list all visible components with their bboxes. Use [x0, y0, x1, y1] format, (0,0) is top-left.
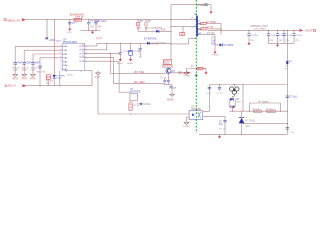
wire cap2 top — [95, 20, 97, 23]
junction RSN x59.8 — [59, 85, 60, 86]
pin stub U2 bottom 2 — [80, 71, 82, 73]
wire chain x70 — [69, 20, 71, 28]
wire fan feed vert — [286, 30, 288, 60]
junction ref x285 — [287, 123, 288, 124]
wire RC1 up — [106, 43, 108, 50]
wire C9 stub — [219, 85, 221, 88]
junction x285 fb — [287, 111, 288, 112]
wire U3 pin right — [137, 103, 141, 105]
port glyph VBUS_IN — [4, 19, 6, 21]
wire C7 bot — [164, 82, 166, 85]
wire U3 in drop — [129, 92, 131, 93]
svg-text:C? 1n: C? 1n — [288, 132, 295, 134]
wire x243 vert — [242, 85, 244, 112]
svg-text:ww: ww — [285, 68, 289, 70]
capacitor Cout3 — [276, 34, 279, 36]
junction x171 rail — [170, 19, 171, 20]
junction RSN x40 — [39, 85, 40, 86]
resistor R3 — [137, 22, 140, 26]
svg-text:C? 0u1: C? 0u1 — [290, 97, 298, 99]
capacitor C_vcc body — [180, 32, 185, 35]
ground pgnd row — [184, 72, 189, 74]
wire ref row — [242, 123, 288, 125]
capacitor C8 — [208, 87, 212, 89]
capacitor C11 bottom right — [286, 128, 290, 130]
port arrow RS_N — [22, 84, 26, 87]
junction vout fan col — [287, 30, 288, 31]
wire boost top — [171, 4, 211, 6]
wire row1 to node — [206, 22, 221, 24]
svg-text:SW?: SW? — [26, 62, 32, 64]
svg-text:RTN: RTN — [67, 32, 72, 34]
switch SW2 body — [23, 62, 26, 64]
wire line B — [114, 83, 164, 85]
junction bypass r — [280, 111, 281, 112]
wire SW3 bot — [32, 64, 34, 74]
pin stub U2 left 6 — [61, 64, 62, 66]
junction x243 fb — [242, 110, 243, 111]
junction x171 vcc — [170, 43, 171, 44]
ground SW3 — [30, 74, 35, 76]
wire pgnd drop — [185, 69, 187, 73]
ground opto — [184, 122, 189, 124]
wire cap2 bot — [95, 24, 97, 30]
junction rail x47 — [46, 19, 47, 20]
wire D5 out — [150, 42, 171, 44]
junction rail fb right — [88, 19, 89, 20]
svg-text:4M7: 4M7 — [145, 27, 150, 30]
svg-text:AGND: AGND — [127, 62, 133, 65]
wire RC2 h — [86, 53, 121, 55]
wire Q1 emitter — [167, 73, 169, 80]
wire outcap5 bot — [293, 35, 295, 43]
wire MCU left L3 vert — [32, 54, 34, 62]
svg-text:RTN: RTN — [13, 77, 18, 80]
pin stub U2 left 7 — [61, 68, 62, 70]
pin stub U2 left 4 — [61, 57, 62, 59]
svg-text:LTST: LTST — [56, 78, 62, 80]
assembly dashed line (green) — [195, 0, 197, 133]
port glyph RS_N — [5, 84, 8, 86]
wire opto rt pin — [203, 110, 210, 112]
wire bypass left — [248, 103, 250, 111]
svg-text:K01P: K01P — [22, 70, 28, 72]
svg-text:COILCRAFT: COILCRAFT — [254, 27, 267, 30]
capacitor C6 — [139, 48, 142, 50]
port glyph VOUT — [313, 29, 315, 31]
wire SW2 bot — [23, 64, 25, 74]
svg-text:1V5: 1V5 — [161, 29, 166, 32]
wire opto rb pin — [203, 115, 225, 117]
resistor R5 row1 — [201, 22, 206, 24]
junction fan c9 — [219, 84, 220, 85]
wire outcap4 bot — [283, 35, 285, 43]
wire outcap2 bot — [267, 35, 269, 43]
power arrow C5 gnd — [119, 58, 122, 62]
fuse F1 body — [286, 61, 288, 64]
wire C6 bot — [139, 50, 141, 57]
wire stack x215 — [214, 35, 216, 51]
junction RTN b — [95, 30, 96, 31]
wire divider bottom — [138, 30, 171, 32]
svg-text:AGND: AGND — [117, 62, 123, 65]
wire U1 row1 — [199, 22, 200, 24]
wire vcc link v — [188, 39, 190, 44]
wire lineB join — [163, 83, 165, 86]
junction Y1 — [130, 43, 131, 44]
diode LED D4 — [53, 75, 56, 78]
capacitor Cout4 — [282, 34, 285, 36]
svg-text:A_C?: A_C? — [96, 37, 102, 40]
junction U2 right pin 2 — [85, 49, 86, 50]
node dot diamond — [140, 103, 142, 105]
svg-text:SENSE: SENSE — [143, 104, 151, 106]
capacitor Cout1 — [247, 34, 250, 36]
wire diode loop top b — [232, 98, 234, 99]
sheet background — [0, 0, 320, 145]
pin stub U2 right 3 — [85, 53, 86, 55]
wire outcap2 top — [267, 30, 269, 33]
svg-text:AGND: AGND — [167, 99, 174, 102]
resistor R8b stack bottom — [163, 65, 173, 67]
wire tap x47 — [46, 20, 48, 38]
junction xtal x106 — [106, 43, 107, 44]
svg-text:C? 47u: C? 47u — [295, 35, 303, 37]
svg-text:R? 51K: R? 51K — [207, 33, 215, 35]
wire TL431 cathode — [241, 124, 243, 135]
wire RC0 h — [86, 45, 97, 47]
diode D2 bootstrap — [156, 30, 159, 33]
svg-text:SW?: SW? — [17, 62, 23, 64]
junction fan stem — [234, 84, 235, 85]
wire MCU left L4 horiz — [40, 57, 63, 59]
junction vout c2 — [268, 30, 269, 31]
port arrow VBUS_IN — [22, 18, 26, 21]
wire diode loop top a — [229, 98, 232, 100]
svg-text:C? 1u: C? 1u — [160, 77, 167, 79]
fan motor B1 symbol — [230, 87, 239, 94]
wire fan stem — [233, 85, 235, 87]
capacitor C9 — [218, 87, 222, 89]
svg-text:U? TL431: U? TL431 — [245, 120, 256, 123]
junction bypass l — [249, 111, 250, 112]
shunt ref U4 TL431 — [239, 117, 245, 123]
wire x183 tap — [182, 27, 184, 33]
wire x140 stub — [139, 43, 141, 48]
wire row2 to node — [206, 28, 221, 30]
wire loop left — [59, 71, 61, 86]
svg-text:25V: 25V — [97, 26, 102, 28]
svg-text:D? BAT54C: D? BAT54C — [144, 37, 157, 40]
resistor R6 row2 — [201, 28, 206, 30]
junction R9 line — [130, 113, 131, 114]
wire VBUS rail — [26, 19, 196, 21]
svg-text:RTN: RTN — [22, 77, 27, 80]
wire diode loop left — [228, 99, 230, 107]
wire D7 down — [232, 107, 234, 111]
capacitor C10 — [286, 96, 290, 98]
pin stub U2 right 5 — [85, 60, 86, 62]
wire diode loop bot b — [233, 106, 236, 108]
port arrow fan net — [187, 71, 191, 74]
wire R3 bot — [137, 26, 139, 31]
capacitor C_in small — [68, 22, 71, 24]
wire fan rail — [210, 84, 288, 86]
wire RT1 bottom — [39, 68, 41, 86]
wire led bottom — [53, 78, 55, 85]
svg-text:RES 10K: RES 10K — [37, 71, 47, 73]
wire R4 top — [145, 20, 147, 23]
wire C7 stub top — [164, 78, 166, 80]
wire RC3 h — [86, 56, 114, 58]
svg-text:VDD?: VDD? — [56, 41, 63, 43]
svg-text:K01P: K01P — [31, 70, 37, 72]
wire cap1 top — [88, 20, 90, 23]
switch SW3 body — [31, 62, 34, 64]
power arrow pgnd row — [204, 71, 207, 75]
svg-text:PGND: PGND — [212, 54, 219, 56]
svg-text:SW?: SW? — [35, 62, 41, 64]
diode D6 flyback — [230, 98, 233, 101]
junction x171 d31 — [170, 31, 171, 32]
wire TL431 top — [241, 111, 243, 117]
svg-text:PIC16F1824: PIC16F1824 — [63, 41, 78, 44]
wire bypass top — [249, 102, 280, 104]
resistor R11 — [254, 110, 262, 112]
junction rail x54 — [54, 19, 55, 20]
junction U2 right pin 3 — [85, 53, 86, 54]
wire RC3 down — [113, 57, 115, 83]
wire RC4 h — [86, 60, 119, 62]
diode D3 catch — [219, 43, 222, 46]
junction vout c3 — [277, 30, 278, 31]
wire bottom rail — [199, 133, 287, 135]
junction rail x70 — [69, 19, 70, 20]
svg-text:R? 1K: R? 1K — [207, 26, 214, 29]
wire outcap3 top — [277, 30, 279, 33]
wire pgnd row — [186, 68, 206, 70]
wire tap x54 — [53, 20, 55, 75]
wire C8 bot — [167, 82, 169, 85]
junction rail cap2 — [95, 19, 96, 20]
port arrow VOUT — [299, 29, 303, 32]
junction vout c5 — [293, 30, 294, 31]
pin stub U2 bottom 1 — [66, 71, 68, 73]
wire fb row — [229, 110, 287, 112]
junction U2 right pin 4 — [85, 57, 86, 58]
wire R4 bot — [145, 26, 147, 31]
svg-text:25V: 25V — [90, 26, 95, 28]
wire xtal line — [97, 42, 171, 44]
svg-text:25V: 25V — [270, 40, 274, 42]
wire AGND stub — [97, 71, 99, 73]
power arrow bottom — [218, 135, 221, 139]
resistor R7 led — [46, 75, 50, 80]
wire node x221 vert — [220, 23, 222, 34]
transistor Q1 body — [166, 68, 171, 73]
wire C5 bot — [119, 54, 121, 57]
junction RSN x48 — [48, 85, 49, 86]
power arrow Y1 gnd — [129, 58, 132, 62]
op-amp U1 controller body — [195, 16, 200, 37]
wire MCU left L1 horiz — [15, 45, 62, 47]
svg-text:25V: 25V — [295, 40, 299, 42]
resistor R4 — [145, 22, 148, 26]
wire vcc link h2 — [189, 38, 196, 40]
wire Q1 out — [171, 72, 187, 74]
wire MCU left L3 horiz — [33, 53, 63, 55]
pin stub U2 right 4 — [85, 56, 86, 58]
sensor U3 body — [130, 93, 137, 100]
svg-text:VOUT: VOUT — [305, 29, 313, 33]
pin stub U2 left 1 — [61, 45, 62, 47]
wire RC1 h — [86, 49, 107, 51]
svg-text:C? 1u: C? 1u — [206, 93, 213, 95]
wire x172 down — [171, 85, 173, 95]
optocoupler U5 body — [189, 111, 203, 120]
wire cap1 bot — [88, 24, 90, 30]
svg-text:L? 4u7: L? 4u7 — [197, 3, 206, 7]
svg-text:RS_N: RS_N — [8, 84, 15, 88]
junction RTN a — [88, 30, 89, 31]
inductor L1 body — [204, 3, 208, 6]
wire x98 down — [97, 75, 99, 114]
capacitor Cout2 — [267, 34, 270, 36]
svg-text:32kHz: 32kHz — [67, 75, 73, 77]
junction RSN x54 — [54, 85, 55, 86]
capacitor C5 xtal — [119, 53, 122, 55]
junction rail cap1 — [88, 19, 89, 20]
wire boost down — [210, 5, 212, 11]
wire outcap4 top — [283, 30, 285, 33]
capacitor C7 pair a — [163, 80, 166, 82]
svg-text:25V: 25V — [279, 40, 283, 42]
power arrow outcap1 — [247, 42, 250, 46]
wire C11 bot — [286, 129, 288, 134]
svg-text:C? 1u: C? 1u — [217, 93, 224, 95]
svg-text:VBUS_IN: VBUS_IN — [7, 19, 19, 23]
power arrow input RTN — [91, 30, 94, 34]
wire x225 down — [224, 116, 226, 134]
wire C5 stub — [119, 43, 121, 52]
pin stub U2 right 2 — [85, 49, 86, 51]
resistor R12 — [267, 110, 276, 112]
junction x243 top — [242, 84, 243, 85]
svg-text:C? 10uF: C? 10uF — [97, 20, 107, 23]
ground AGND mid — [95, 73, 100, 75]
svg-text:25V: 25V — [250, 40, 254, 42]
resistor R10 — [197, 67, 203, 70]
junction bottom x225 — [224, 134, 225, 135]
pin tick U1 bottom — [195, 38, 196, 40]
capacitor C2 input — [94, 22, 97, 24]
svg-text:C? 47u: C? 47u — [285, 35, 293, 37]
svg-text:R? 1K: R? 1K — [219, 129, 226, 131]
thermistor RT1 body — [38, 66, 41, 68]
svg-text:600R 2A: 600R 2A — [75, 16, 84, 19]
wire x209 down — [209, 85, 211, 112]
svg-text:PGND: PGND — [183, 126, 190, 128]
svg-text:PGND: PGND — [184, 76, 191, 78]
power arrow PGND top — [209, 10, 212, 14]
power arrow stack — [213, 50, 216, 54]
junction RC2 x110 — [110, 53, 111, 54]
wire pgnd right — [203, 68, 206, 70]
svg-text:R? wwww: R? wwww — [259, 102, 270, 104]
diode D7 antiparallel — [231, 105, 234, 108]
ground Q1 — [170, 94, 175, 96]
svg-text:ACZ: ACZ — [245, 125, 250, 128]
wire vcc link h1 — [171, 43, 189, 45]
wire RC2b down — [110, 54, 112, 74]
wire RC4 down — [118, 61, 120, 92]
crystal Y1 body — [128, 50, 133, 55]
wire R7 bottom — [47, 79, 49, 85]
junction U2 right pin 5 — [85, 61, 86, 62]
pin stub U2 right 1 — [85, 45, 86, 47]
wire outcap1 top — [248, 30, 250, 33]
svg-text:SFH6186: SFH6186 — [191, 109, 201, 111]
wire C9 bot — [219, 89, 221, 91]
assembly line dark mark — [196, 74, 198, 76]
junction vout c1 — [248, 30, 249, 31]
wire diode loop bot a — [229, 106, 232, 108]
wire outcap5 top — [293, 30, 295, 33]
wire VOUT rail — [208, 29, 300, 31]
capacitor C12 — [223, 120, 226, 122]
wire MCU left L2 horiz — [24, 49, 62, 51]
capacitor C1 input — [87, 22, 90, 24]
ferrite bead FB1 — [74, 18, 82, 21]
wire D3 anode — [215, 44, 219, 46]
svg-text:K01P: K01P — [13, 70, 19, 72]
switch SW1 body — [14, 62, 17, 64]
wire bypass right — [279, 103, 281, 111]
wire x285 vert — [286, 85, 288, 132]
capacitor Cout5 — [292, 34, 295, 36]
wire U1 row2 — [199, 28, 200, 30]
wire cap pair rail — [164, 84, 173, 86]
svg-text:SS14: SS14 — [236, 102, 242, 104]
wire RS_N line — [27, 85, 92, 87]
svg-text:D? SS34: D? SS34 — [224, 44, 234, 47]
pin stub U2 left 5 — [61, 61, 62, 63]
junction vout c4 — [283, 30, 284, 31]
net flag blob x47 — [45, 37, 48, 39]
wire loop right — [91, 71, 93, 86]
capacitor C8 pair b — [167, 80, 170, 82]
wire MCU left L4 vert — [39, 58, 41, 66]
svg-text:R? 100K: R? 100K — [207, 21, 217, 24]
resistor R8 stack top — [163, 60, 172, 65]
wire U1 row3 — [199, 34, 215, 36]
junction fb loop — [232, 111, 233, 112]
wire fan feed vert2 — [286, 64, 288, 84]
junction bottom x243 — [241, 134, 242, 135]
diode D5 — [147, 42, 150, 45]
wire MCU left L1 vert — [14, 46, 16, 62]
power arrow outcap rail — [276, 43, 279, 47]
wire R3 top — [137, 20, 139, 23]
junction C6 bot — [140, 56, 141, 57]
wire IC vin pin — [171, 26, 196, 28]
power arrow Cin — [68, 27, 71, 31]
wire U3 in — [119, 91, 130, 93]
svg-text:R? 4K7: R? 4K7 — [134, 105, 142, 107]
resistor R9 vert — [129, 103, 133, 111]
junction node x221 a — [220, 28, 221, 29]
svg-text:4M7: 4M7 — [137, 27, 142, 30]
